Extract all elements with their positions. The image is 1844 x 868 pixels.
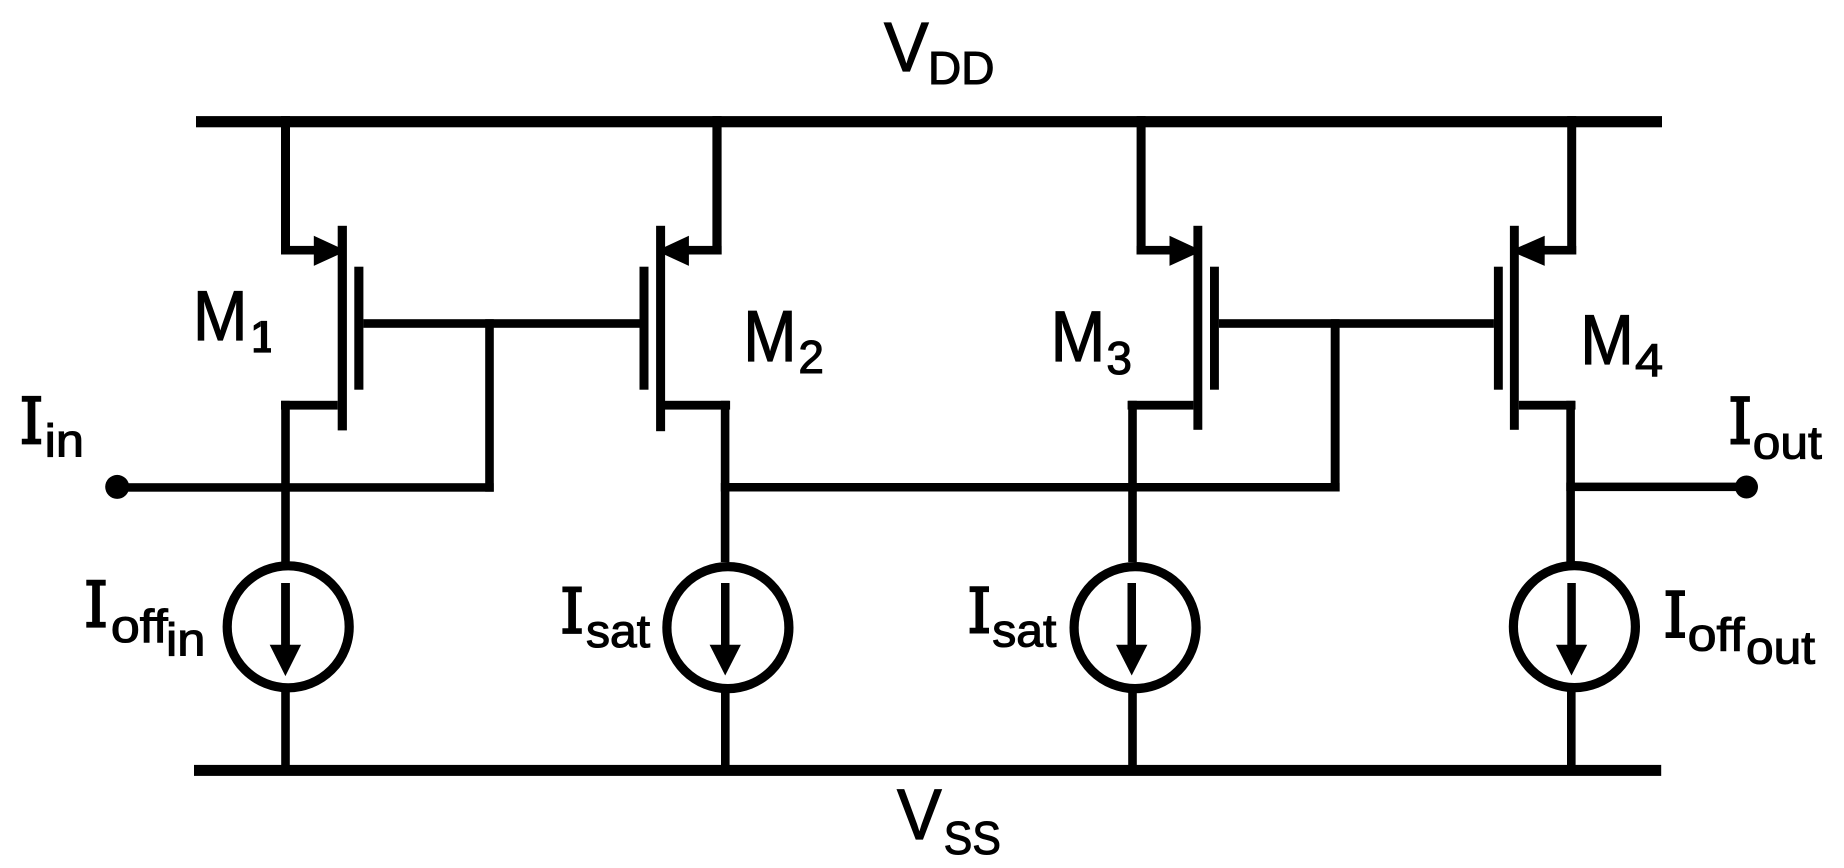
- svg-text:sat: sat: [992, 604, 1056, 656]
- M3 gate bar: [1210, 267, 1219, 390]
- wire I_sat2 to VSS: [1128, 688, 1137, 765]
- svg-text:off: off: [111, 602, 168, 653]
- svg-text:M: M: [743, 296, 796, 377]
- label M1: [193, 277, 271, 356]
- M3 drain wire: [1128, 401, 1194, 410]
- label VSS: [897, 774, 1001, 864]
- wire M1 source from VDD: [281, 116, 290, 254]
- svg-text:M: M: [193, 277, 248, 356]
- wire I_off_out to VSS: [1567, 688, 1576, 765]
- M3 source arrow: [1170, 236, 1203, 266]
- VDD rail: [196, 116, 1662, 127]
- M4 source arrow: [1510, 236, 1545, 266]
- M4 channel bar: [1510, 226, 1519, 430]
- M2 channel bar: [656, 226, 665, 431]
- svg-text:2: 2: [798, 331, 824, 383]
- node I_in wire: [117, 483, 494, 492]
- wire M3 source from VDD: [1137, 116, 1146, 254]
- M3 channel bar: [1193, 226, 1202, 430]
- I_off_out arrow: [1567, 583, 1576, 647]
- wire gate M3-M4: [1219, 319, 1494, 328]
- I_sat1 arrow: [721, 583, 730, 647]
- wire gate M1-M2: [363, 319, 639, 328]
- wire M4 source from VDD: [1567, 116, 1576, 254]
- svg-text:DD: DD: [928, 42, 994, 94]
- svg-text:3: 3: [1106, 332, 1132, 384]
- node I_in dot: [105, 475, 129, 499]
- M1 channel bar: [338, 226, 347, 431]
- transistor M3: [1128, 116, 1219, 562]
- M1 gate bar: [354, 267, 363, 390]
- label M2: [743, 296, 824, 383]
- node I_out wire: [1566, 483, 1746, 492]
- M2 source arrow: [656, 236, 689, 266]
- label M3: [1051, 298, 1132, 384]
- label I_in: [22, 396, 84, 467]
- svg-text:sat: sat: [586, 605, 650, 657]
- wire M2 drain to gates of M3 M4: [721, 483, 1340, 492]
- label M4: [1580, 301, 1663, 386]
- svg-text:4: 4: [1635, 335, 1663, 386]
- svg-text:out: out: [1746, 623, 1815, 674]
- transistor M4: [1494, 116, 1576, 562]
- wire I_sat1 to VSS: [721, 688, 730, 765]
- M4 gate bar: [1494, 267, 1503, 390]
- M1 drain wire: [281, 401, 338, 410]
- current source I_off_out: [1513, 566, 1635, 765]
- svg-text:V: V: [897, 774, 942, 854]
- label I_off_in: [86, 580, 205, 666]
- svg-text:in: in: [166, 614, 205, 665]
- svg-text:M: M: [1051, 298, 1106, 377]
- label VDD: [884, 8, 994, 94]
- current source I_sat 2: [1074, 567, 1196, 765]
- M4 drain wire: [1519, 401, 1576, 410]
- M2 gate bar: [640, 267, 649, 390]
- current source I_sat 1: [667, 567, 789, 765]
- svg-text:SS: SS: [944, 814, 1001, 865]
- svg-text:out: out: [1753, 418, 1822, 469]
- VSS rail: [194, 765, 1661, 776]
- I_off_in arrow: [281, 583, 290, 647]
- wire M2 source from VDD: [712, 116, 721, 254]
- label I_sat 1: [562, 587, 650, 657]
- M1 source arrow: [314, 236, 347, 266]
- label I_out: [1731, 396, 1822, 469]
- transistor M1: [281, 116, 363, 562]
- M2 drain wire: [665, 401, 730, 410]
- I_sat2 arrow: [1128, 583, 1137, 647]
- current source I_off_in: [227, 566, 349, 765]
- wire gate drop to M2 drain node: [1331, 319, 1340, 491]
- svg-text:in: in: [45, 416, 84, 467]
- node I_out dot: [1735, 476, 1758, 499]
- wire gate drop to input node: [485, 319, 494, 492]
- svg-text:off: off: [1688, 610, 1745, 661]
- label I_off_out: [1666, 590, 1815, 674]
- svg-text:V: V: [884, 8, 929, 87]
- svg-text:M: M: [1580, 301, 1634, 379]
- wire I_off_in to VSS: [281, 688, 290, 765]
- label I_sat 2: [970, 586, 1057, 656]
- transistor M2: [640, 116, 731, 562]
